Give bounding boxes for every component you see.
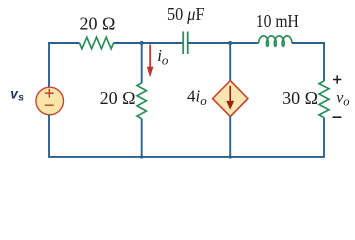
svg-text:50 μF: 50 μF xyxy=(167,4,205,24)
wire: left upper + top-left horizontal to R1 xyxy=(49,43,80,88)
plus sign inside source xyxy=(45,89,54,98)
dependent current source U1 diamond xyxy=(213,81,248,117)
inductor L1 10mH xyxy=(259,36,292,47)
junction dot branch 1 / bottom wire xyxy=(140,155,143,158)
voltage source vs circle xyxy=(36,87,64,115)
minus sign inside source xyxy=(45,104,54,106)
wire: branch 2 lower segment xyxy=(229,117,231,157)
svg-text:vo: vo xyxy=(336,90,349,109)
svg-text:20 Ω: 20 Ω xyxy=(80,13,116,33)
plus polarity mark for vo xyxy=(333,75,341,83)
wire: top from capacitor to inductor, through node B xyxy=(188,42,259,44)
node A junction dot (top, x=141.7) xyxy=(140,41,144,45)
svg-text:4io: 4io xyxy=(187,86,207,108)
resistor R3 30ohm (right vertical) xyxy=(319,81,329,118)
svg-text:20 Ω: 20 Ω xyxy=(100,88,136,108)
svg-text:io: io xyxy=(157,46,169,68)
resistor R1 20ohm (top) xyxy=(80,37,114,49)
svg-text:10 mH: 10 mH xyxy=(256,11,299,31)
capacitor C1 50uF plates xyxy=(183,32,188,55)
wire: branch 1 upper segment xyxy=(141,43,143,83)
wire: top middle from R1 to capacitor xyxy=(114,42,184,44)
svg-text:vs: vs xyxy=(10,87,24,104)
resistor R2 20ohm (middle vertical) xyxy=(137,83,146,119)
svg-text:30 Ω: 30 Ω xyxy=(282,88,318,108)
wire: top-right from inductor to corner and down xyxy=(292,43,324,81)
minus polarity mark for vo xyxy=(333,116,342,118)
wire: left lower + bottom + right lower xyxy=(49,115,324,157)
wire: branch 1 lower segment xyxy=(141,119,143,157)
node B junction dot (top, x=230.2) xyxy=(228,41,232,45)
current arrow io xyxy=(147,45,154,78)
wire: branch 2 upper segment xyxy=(229,43,231,81)
junction dot branch 2 / bottom wire xyxy=(229,155,232,158)
arrow inside dependent source xyxy=(226,86,234,110)
